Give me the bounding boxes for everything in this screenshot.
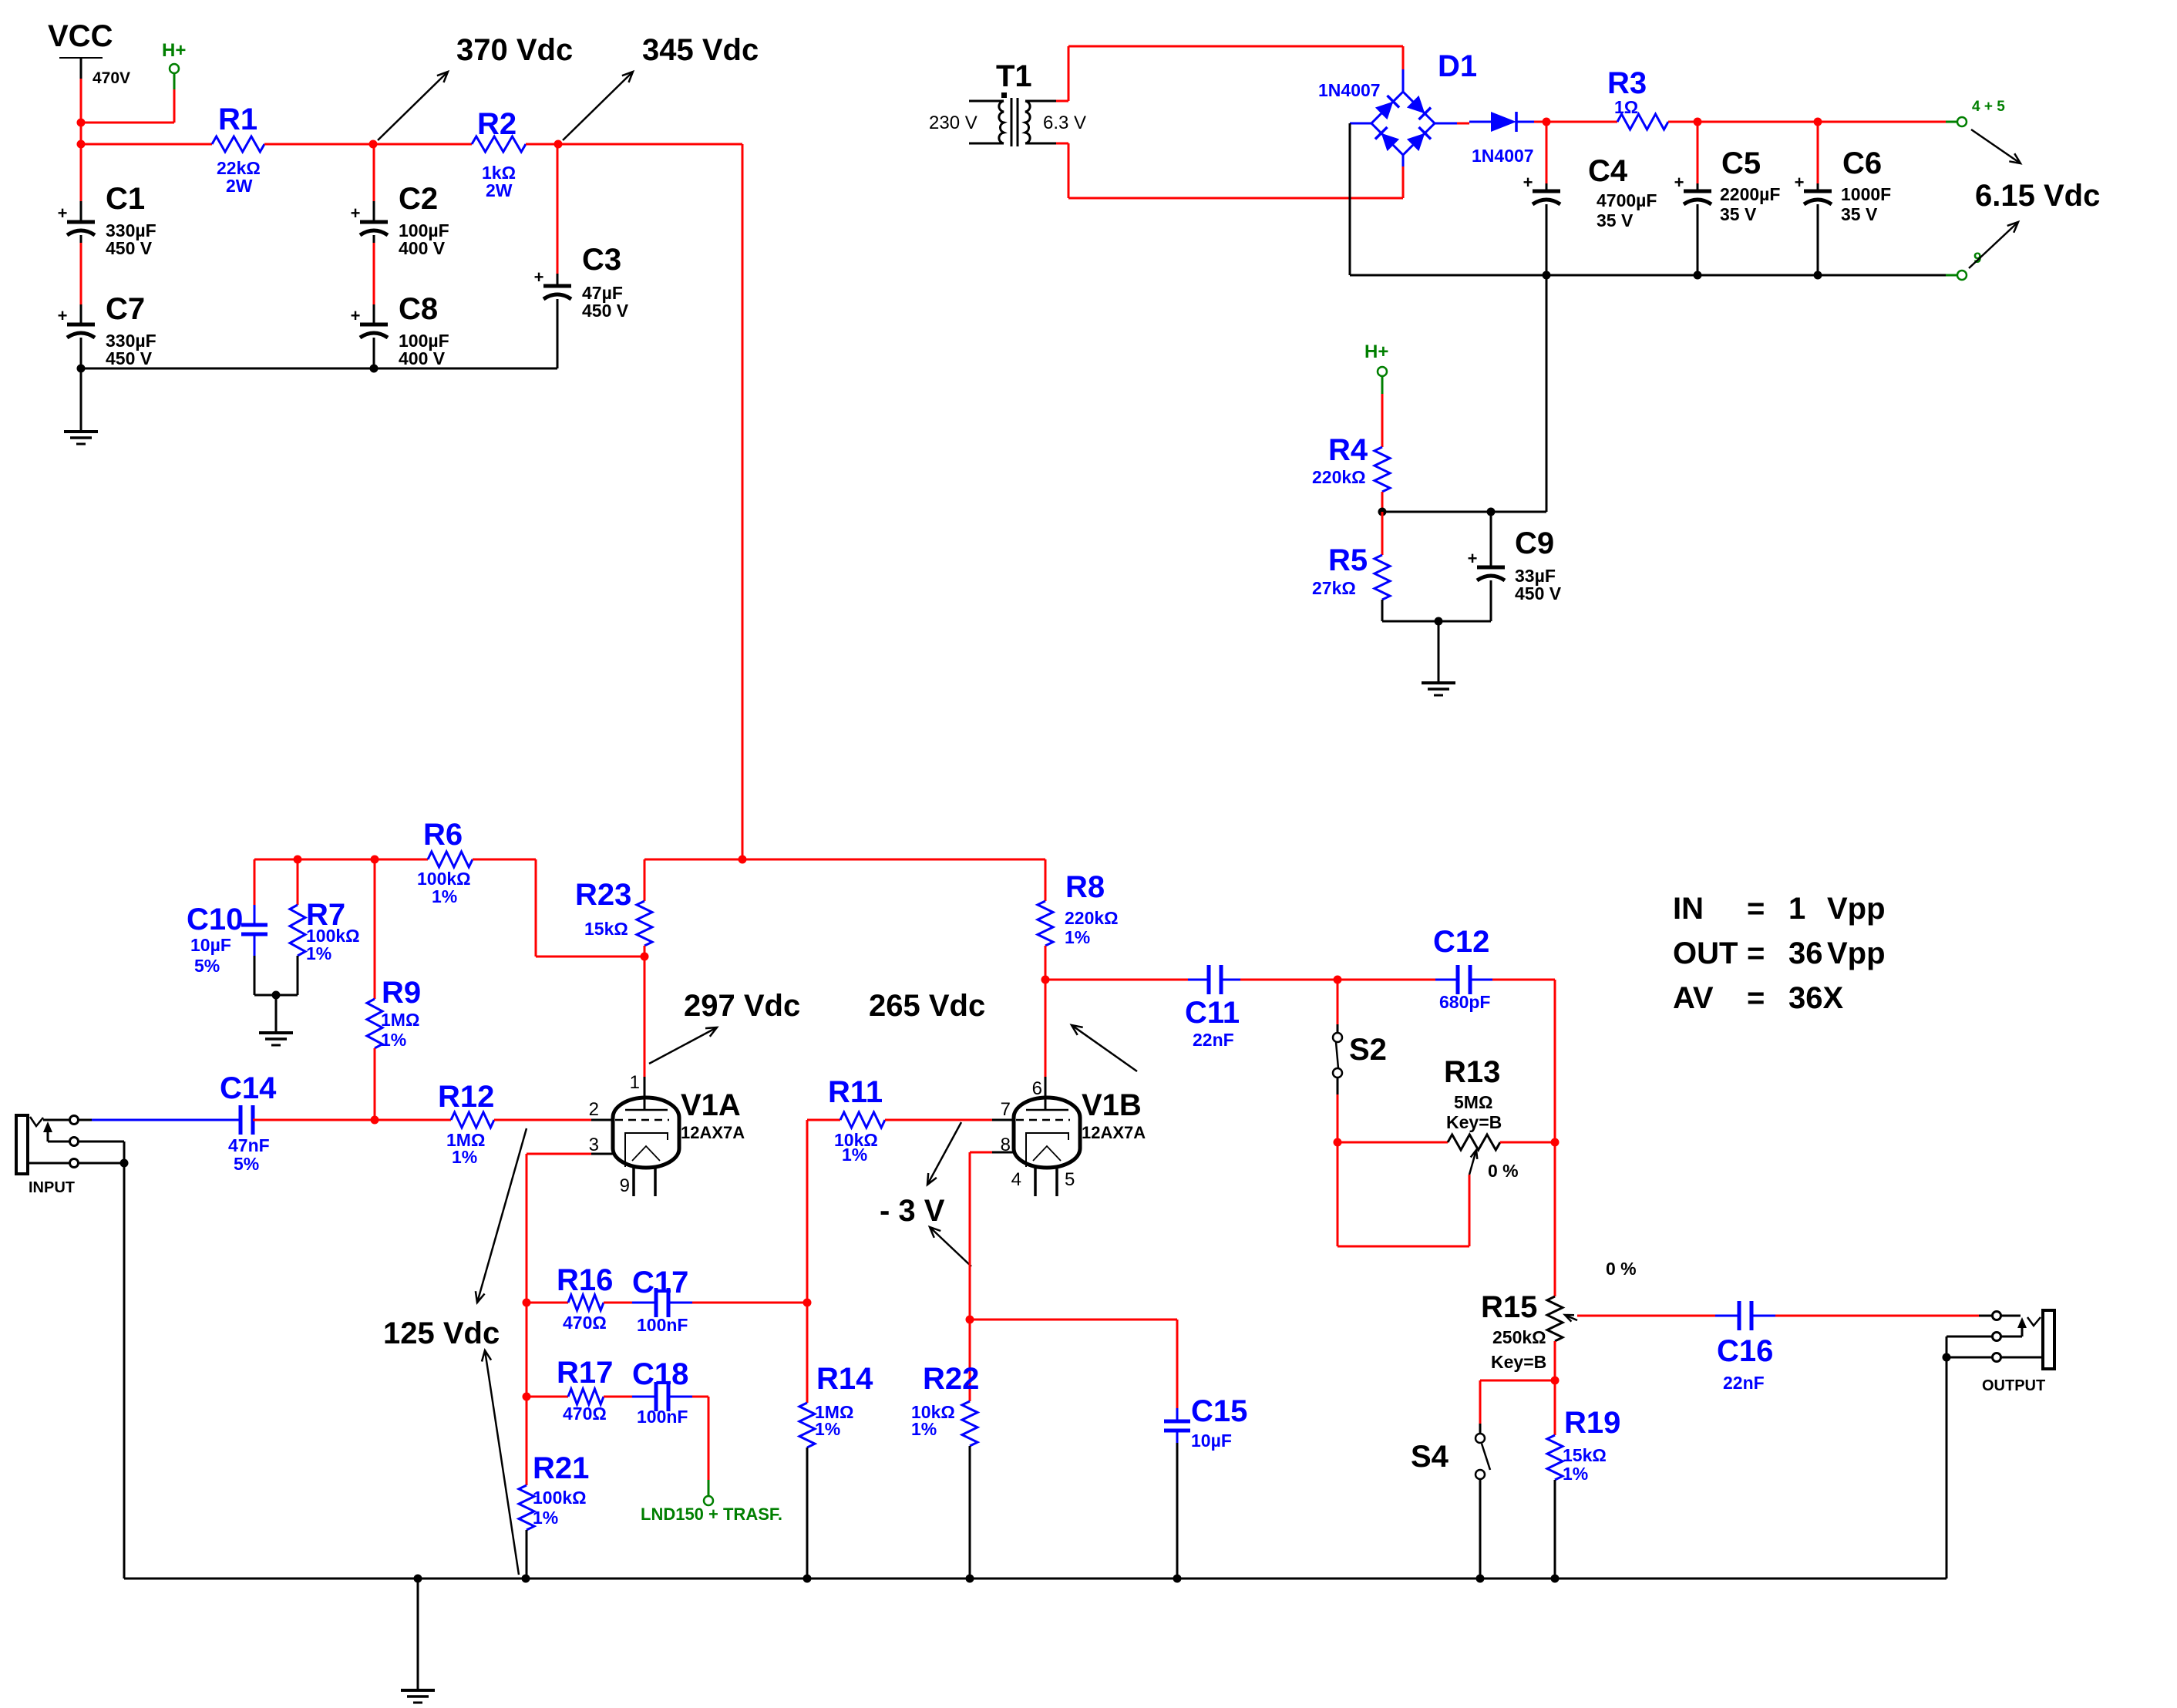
svg-text:C10: C10	[187, 903, 243, 936]
capacitor C12	[1433, 925, 1490, 1012]
svg-text:R19: R19	[1564, 1406, 1620, 1440]
capacitor C11	[1185, 965, 1240, 1050]
ground	[1422, 683, 1455, 695]
wire	[806, 1447, 809, 1579]
capacitor C15	[1164, 1394, 1247, 1451]
junction	[77, 140, 86, 149]
svg-text:22nF: 22nF	[1193, 1030, 1234, 1050]
svg-text:6.3 V: 6.3 V	[1043, 113, 1086, 133]
capacitor C4	[1523, 154, 1657, 230]
bridge rectifier D1	[1318, 49, 1477, 166]
svg-text:C5: C5	[1721, 146, 1761, 180]
svg-text:1%: 1%	[306, 943, 331, 963]
svg-text:1%: 1%	[432, 886, 457, 906]
wire	[1438, 621, 1440, 683]
wire	[80, 338, 82, 368]
svg-text:+: +	[1523, 173, 1533, 192]
wire	[1435, 979, 1492, 981]
svg-text:OUTPUT: OUTPUT	[1982, 1377, 2045, 1394]
capacitor C3	[534, 243, 629, 321]
svg-text:+: +	[1674, 173, 1684, 192]
svg-text:450 V: 450 V	[106, 238, 153, 258]
junction	[966, 1575, 974, 1583]
wire	[969, 1446, 971, 1579]
svg-text:0 %: 0 %	[1606, 1259, 1637, 1279]
svg-text:1Ω: 1Ω	[1614, 97, 1638, 117]
terminal 4+5	[1957, 99, 2005, 126]
jack INPUT	[16, 1115, 124, 1196]
wire	[1221, 979, 1337, 981]
wire	[1056, 46, 1403, 101]
label 370 Vdc	[456, 33, 573, 67]
svg-text:C9: C9	[1515, 526, 1554, 560]
svg-text:5MΩ: 5MΩ	[1454, 1092, 1492, 1112]
svg-text:LND150 + TRASF.: LND150 + TRASF.	[641, 1505, 782, 1524]
junction	[1694, 271, 1702, 280]
svg-text:1%: 1%	[1065, 927, 1090, 947]
svg-text:100kΩ: 100kΩ	[533, 1488, 587, 1508]
junction	[523, 1393, 531, 1401]
svg-text:400 V: 400 V	[399, 238, 446, 258]
svg-text:2200µF: 2200µF	[1720, 184, 1780, 204]
wire	[1490, 580, 1492, 621]
svg-text:R1: R1	[218, 103, 257, 136]
wire	[264, 143, 373, 146]
label 265 Vdc	[869, 989, 985, 1023]
wire	[275, 995, 278, 1033]
svg-text:35 V: 35 V	[1720, 204, 1757, 224]
svg-text:R11: R11	[828, 1075, 883, 1109]
arrow to 125 Vdc (from cathode)	[482, 1350, 519, 1575]
junction	[1551, 1138, 1560, 1147]
wire	[527, 1153, 613, 1155]
wire	[969, 1320, 971, 1401]
svg-text:S2: S2	[1349, 1033, 1387, 1067]
svg-text:265 Vdc: 265 Vdc	[869, 989, 985, 1023]
wire	[1698, 121, 1818, 123]
svg-text:AV: AV	[1673, 981, 1714, 1015]
wire	[1500, 1141, 1555, 1144]
resistor R21	[519, 1451, 589, 1530]
ground	[259, 1033, 293, 1045]
svg-text:6.15 Vdc: 6.15 Vdc	[1975, 179, 2100, 213]
wire	[123, 1163, 126, 1579]
wire	[373, 144, 375, 222]
svg-text:5: 5	[1065, 1169, 1075, 1190]
svg-text:1: 1	[1788, 892, 1805, 926]
label 297 Vdc	[684, 989, 800, 1023]
svg-text:1%: 1%	[452, 1147, 477, 1167]
svg-text:T1: T1	[996, 59, 1032, 93]
wire	[1818, 121, 1957, 123]
junction	[77, 365, 86, 373]
wire	[80, 79, 82, 144]
svg-text:12AX7A: 12AX7A	[1082, 1123, 1146, 1142]
svg-text:1%: 1%	[533, 1508, 558, 1528]
triode V1A	[589, 1072, 745, 1196]
wire	[254, 934, 256, 995]
svg-text:C15: C15	[1191, 1394, 1247, 1428]
svg-text:R14: R14	[816, 1362, 873, 1396]
svg-text:R4: R4	[1328, 433, 1368, 467]
svg-text:680pF: 680pF	[1439, 992, 1490, 1012]
wire	[373, 235, 375, 324]
junction	[1041, 976, 1050, 984]
wire	[1817, 122, 1819, 191]
wire	[644, 859, 646, 901]
junction	[371, 856, 379, 864]
svg-text:C16: C16	[1717, 1334, 1773, 1368]
svg-text:INPUT: INPUT	[29, 1179, 75, 1196]
junction	[522, 1575, 530, 1583]
label 470V	[93, 69, 130, 87]
svg-text:4700µF: 4700µF	[1597, 190, 1657, 210]
ground	[64, 432, 98, 444]
svg-text:230 V: 230 V	[929, 113, 977, 133]
svg-text:470V: 470V	[93, 69, 130, 87]
resistor R22	[911, 1362, 979, 1446]
svg-text:C17: C17	[632, 1266, 688, 1299]
arrow to -3V (from grid)	[927, 1122, 961, 1185]
svg-text:+: +	[58, 203, 68, 223]
wire	[557, 144, 559, 286]
svg-text:+: +	[58, 306, 68, 325]
capacitor C1	[58, 182, 156, 258]
junction	[803, 1575, 812, 1583]
wire	[1337, 1141, 1448, 1144]
terminal LND150	[641, 1496, 782, 1524]
resistor R12	[438, 1080, 494, 1167]
junction	[641, 953, 649, 961]
transformer T1	[969, 59, 1056, 146]
arrow to 297 Vdc	[649, 1027, 717, 1064]
wire	[527, 1396, 568, 1398]
svg-text:2W: 2W	[226, 176, 253, 196]
svg-text:27kΩ: 27kΩ	[1312, 578, 1356, 598]
wire	[1577, 1315, 1715, 1317]
svg-text:297 Vdc: 297 Vdc	[684, 989, 800, 1023]
wire	[1045, 859, 1047, 901]
wire	[254, 994, 298, 997]
wire	[1817, 204, 1819, 275]
wire	[1546, 122, 1548, 191]
svg-text:S4: S4	[1411, 1440, 1449, 1474]
wire	[1492, 980, 1555, 1142]
arrow from 4+5	[1971, 129, 2021, 163]
wire	[80, 235, 82, 324]
resistor R17	[557, 1356, 613, 1424]
svg-text:C12: C12	[1433, 925, 1489, 959]
label IN = 1 Vpp	[1673, 892, 1886, 926]
svg-text:400 V: 400 V	[399, 348, 446, 368]
svg-text:Key=B: Key=B	[1491, 1352, 1546, 1372]
svg-text:450 V: 450 V	[1515, 583, 1562, 604]
junction	[1551, 1575, 1560, 1583]
svg-text:R17: R17	[557, 1356, 613, 1390]
svg-text:1%: 1%	[815, 1419, 840, 1439]
svg-text:+: +	[534, 267, 544, 287]
wire	[526, 143, 558, 146]
wire	[604, 1302, 656, 1304]
svg-text:R21: R21	[533, 1451, 589, 1485]
svg-text:125 Vdc: 125 Vdc	[383, 1316, 500, 1350]
jack OUTPUT	[1947, 1310, 2054, 1394]
wire	[297, 859, 299, 905]
capacitor C7	[58, 292, 156, 368]
capacitor C16	[1717, 1301, 1773, 1393]
svg-text:+: +	[351, 203, 361, 223]
svg-text:47nF: 47nF	[228, 1135, 270, 1155]
svg-text:36X: 36X	[1788, 981, 1843, 1015]
junction	[1551, 1377, 1560, 1385]
wire	[526, 1397, 528, 1485]
svg-text:3: 3	[589, 1135, 599, 1155]
wire	[885, 1119, 1014, 1121]
junction	[1543, 118, 1551, 126]
capacitor C6	[1795, 146, 1892, 224]
junction	[523, 1299, 531, 1307]
svg-text:220kΩ: 220kΩ	[1312, 467, 1366, 487]
arrow to 125 Vdc (from grid)	[476, 1128, 527, 1303]
wire	[373, 338, 375, 368]
wire	[1056, 143, 1403, 198]
junction	[370, 365, 379, 373]
resistor R1	[212, 103, 264, 196]
junction	[272, 991, 281, 1000]
junction	[1943, 1353, 1951, 1362]
wire	[374, 1048, 376, 1120]
wire	[1382, 275, 1546, 512]
arrow to 370 Vdc	[378, 72, 448, 140]
svg-text:35 V: 35 V	[1841, 204, 1878, 224]
svg-text:=: =	[1747, 936, 1765, 970]
svg-text:R8: R8	[1065, 870, 1105, 904]
svg-text:Vpp: Vpp	[1827, 892, 1886, 926]
wire	[644, 957, 646, 1110]
wire R13 wiper loop	[1337, 1142, 1469, 1246]
svg-text:D1: D1	[1438, 49, 1477, 83]
resistor R2	[472, 107, 526, 200]
svg-text:C18: C18	[632, 1357, 688, 1391]
label - 3 V	[880, 1194, 945, 1228]
svg-text:C1: C1	[106, 182, 145, 216]
wire	[1946, 1357, 1948, 1579]
svg-text:220kΩ: 220kΩ	[1065, 908, 1119, 928]
svg-text:2W: 2W	[486, 180, 513, 200]
wire	[1554, 1380, 1556, 1435]
wire	[81, 143, 212, 146]
svg-text:VCC: VCC	[48, 19, 113, 53]
wire	[1546, 121, 1617, 123]
wire	[1457, 123, 1469, 125]
wire	[1554, 1480, 1556, 1579]
wire	[297, 956, 299, 995]
wire	[374, 859, 376, 999]
svg-text:1%: 1%	[842, 1145, 867, 1165]
switch S4	[1411, 1424, 1490, 1579]
terminal H+ (left)	[162, 40, 186, 123]
svg-text:35 V: 35 V	[1597, 210, 1634, 230]
wire	[80, 368, 82, 432]
svg-text:1%: 1%	[381, 1030, 406, 1050]
resistor R5	[1312, 543, 1390, 600]
svg-text:R2: R2	[477, 107, 516, 141]
wire	[644, 859, 1045, 861]
junction	[966, 1316, 974, 1324]
svg-text:6: 6	[1032, 1078, 1042, 1099]
svg-text:0 %: 0 %	[1488, 1161, 1519, 1181]
potentiometer R15	[1481, 1259, 1637, 1372]
svg-text:C14: C14	[220, 1071, 277, 1105]
wire	[417, 1579, 419, 1690]
wire	[81, 122, 174, 124]
wire	[1381, 394, 1384, 447]
resistor R11	[828, 1075, 885, 1165]
wire	[1176, 1431, 1179, 1579]
wire	[1045, 979, 1209, 981]
resistor R19	[1547, 1406, 1620, 1484]
resistor R4	[1312, 433, 1390, 492]
junction	[739, 856, 747, 864]
terminal H+ (right)	[1364, 341, 1388, 394]
wire	[1546, 204, 1548, 275]
svg-text:Vpp: Vpp	[1827, 936, 1886, 970]
wire	[604, 1396, 656, 1398]
svg-text:4: 4	[1011, 1169, 1021, 1190]
svg-text:R23: R23	[575, 878, 631, 912]
svg-text:C3: C3	[582, 243, 621, 277]
wire	[558, 144, 742, 859]
svg-text:R22: R22	[923, 1362, 979, 1396]
wire	[1337, 979, 1435, 981]
switch S2	[1333, 1024, 1387, 1094]
svg-text:Key=B: Key=B	[1446, 1112, 1502, 1132]
svg-text:C6: C6	[1842, 146, 1882, 180]
wire	[373, 143, 472, 146]
junction	[77, 119, 86, 127]
svg-text:C7: C7	[106, 292, 145, 326]
svg-text:R5: R5	[1328, 543, 1368, 577]
wire	[1534, 121, 1546, 123]
svg-text:C11: C11	[1185, 996, 1240, 1030]
svg-text:V1B: V1B	[1082, 1088, 1142, 1122]
junction	[1435, 617, 1443, 626]
wire	[526, 1303, 528, 1397]
label 6.15 Vdc	[1975, 179, 2100, 213]
wire ground bus left	[81, 368, 557, 370]
junction	[1476, 1575, 1485, 1583]
svg-text:345 Vdc: 345 Vdc	[642, 33, 759, 67]
svg-text:9: 9	[620, 1175, 630, 1196]
svg-text:7: 7	[1001, 1099, 1011, 1120]
terminal 9	[1957, 250, 1982, 280]
wire	[806, 1303, 809, 1403]
junction	[1487, 508, 1496, 516]
svg-text:+: +	[1795, 173, 1805, 192]
svg-text:V1A: V1A	[681, 1088, 741, 1122]
capacitor C8	[351, 292, 449, 368]
wire	[970, 1152, 1014, 1154]
svg-text:36: 36	[1788, 936, 1823, 970]
wire	[1381, 600, 1384, 621]
svg-text:450 V: 450 V	[582, 301, 629, 321]
svg-text:C2: C2	[399, 182, 438, 216]
resistor R14	[799, 1362, 873, 1447]
wire	[1337, 1094, 1339, 1142]
junction	[1378, 508, 1387, 516]
junction	[1814, 271, 1822, 280]
svg-text:=: =	[1747, 892, 1765, 926]
label 345 Vdc	[642, 33, 759, 67]
svg-text:470Ω: 470Ω	[563, 1404, 607, 1424]
svg-text:1: 1	[630, 1072, 640, 1093]
wire	[526, 1530, 528, 1579]
wire ground bus bottom	[124, 1578, 1947, 1580]
junction	[1334, 976, 1342, 984]
svg-text:OUT: OUT	[1673, 936, 1738, 970]
wire	[1554, 1142, 1556, 1296]
label OUT = 36 Vpp	[1673, 936, 1886, 970]
svg-text:R6: R6	[423, 818, 463, 852]
junction	[1814, 118, 1822, 126]
svg-text:R9: R9	[382, 976, 421, 1010]
arrow to -3V (from cathode)	[930, 1227, 971, 1266]
svg-text:100nF: 100nF	[637, 1315, 688, 1335]
wire	[644, 946, 646, 957]
capacitor C18	[632, 1357, 688, 1427]
svg-text:15kΩ: 15kΩ	[1563, 1445, 1607, 1465]
svg-text:1N4007: 1N4007	[1318, 80, 1381, 100]
junction	[371, 1116, 379, 1125]
capacitor C2	[351, 182, 449, 258]
capacitor C5	[1674, 146, 1781, 224]
wire	[1715, 1315, 1775, 1317]
wire	[1349, 123, 1351, 275]
junction	[1334, 1138, 1342, 1147]
wire	[1045, 946, 1047, 980]
junction	[1173, 1575, 1182, 1583]
wire	[1480, 1380, 1555, 1424]
resistor R16	[557, 1263, 613, 1333]
capacitor C9	[1468, 526, 1562, 604]
svg-text:R13: R13	[1444, 1055, 1500, 1089]
wire	[527, 1302, 568, 1304]
wire	[526, 1154, 528, 1303]
svg-text:IN: IN	[1673, 892, 1704, 926]
svg-text:1000F: 1000F	[1841, 184, 1891, 204]
label 6.3 V	[1043, 113, 1086, 133]
junction	[294, 856, 302, 864]
svg-text:H+: H+	[1364, 341, 1388, 362]
triode V1B	[1001, 1078, 1146, 1196]
label 230 V	[929, 113, 977, 133]
svg-text:22nF: 22nF	[1723, 1373, 1765, 1393]
wire	[557, 299, 559, 368]
svg-text:12AX7A: 12AX7A	[681, 1123, 745, 1142]
capacitor C17	[632, 1266, 688, 1335]
capacitor C10	[187, 903, 267, 976]
ground	[401, 1690, 435, 1703]
wire	[1382, 620, 1491, 623]
svg-text:470Ω: 470Ω	[563, 1313, 607, 1333]
wire	[80, 144, 82, 222]
wire	[1045, 980, 1047, 1110]
junction	[1694, 118, 1702, 126]
svg-text:1%: 1%	[1563, 1464, 1588, 1484]
svg-text:+: +	[1468, 549, 1478, 568]
capacitor C14	[220, 1071, 277, 1174]
wire	[1668, 121, 1698, 123]
